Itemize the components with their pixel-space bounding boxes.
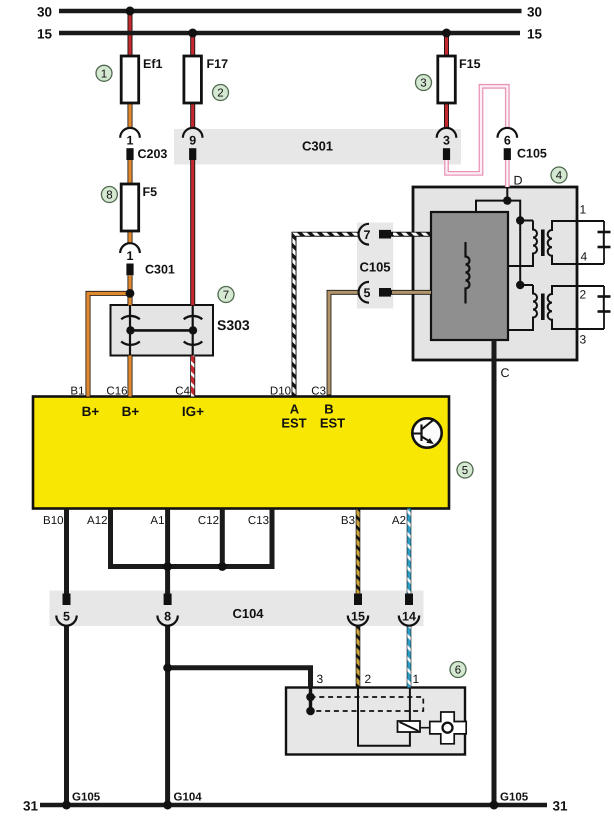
svg-text:A12: A12 xyxy=(87,515,107,527)
svg-text:5: 5 xyxy=(63,610,70,624)
svg-text:30: 30 xyxy=(527,5,542,20)
junction node C12 on joining bar xyxy=(218,562,227,571)
fuse F5 xyxy=(121,184,139,231)
svg-text:9: 9 xyxy=(189,134,196,148)
wire thick black ECU pin A12 down xyxy=(108,509,113,567)
ignition coil 2-3 core xyxy=(541,294,545,321)
svg-text:C301: C301 xyxy=(145,262,175,276)
injector block dashed linkage xyxy=(311,697,424,711)
svg-text:8: 8 xyxy=(106,190,112,202)
svg-text:B1: B1 xyxy=(70,386,84,398)
junction node on bus30 xyxy=(126,7,135,16)
svg-text:3: 3 xyxy=(420,78,426,90)
svg-text:7: 7 xyxy=(223,290,229,302)
svg-text:1: 1 xyxy=(127,249,134,263)
svg-text:C4: C4 xyxy=(175,386,190,398)
connector strip C105 (background) xyxy=(357,223,393,309)
wire thick black C104 pin8 to ground G104 xyxy=(165,626,170,805)
wire thin black inside S303 right xyxy=(192,305,194,356)
svg-text:G104: G104 xyxy=(174,792,203,804)
connector C105 pin6 (arc, number, pin square) xyxy=(498,128,518,160)
svg-text:A2: A2 xyxy=(392,515,406,527)
svg-text:14: 14 xyxy=(402,610,416,624)
svg-text:F15: F15 xyxy=(459,57,481,71)
svg-text:2: 2 xyxy=(217,88,223,100)
svg-text:5: 5 xyxy=(462,465,468,477)
svg-text:1: 1 xyxy=(580,203,587,217)
splice block S303 (background) xyxy=(111,305,214,356)
svg-text:31: 31 xyxy=(553,799,569,814)
svg-text:A1: A1 xyxy=(150,515,164,527)
ignition coil 1-4 core xyxy=(541,230,545,257)
ignition coil 1-4 primary xyxy=(508,221,537,267)
svg-text:31: 31 xyxy=(23,799,39,814)
circled ref 4 xyxy=(551,167,567,183)
injector block internal node upper xyxy=(306,693,315,702)
injector block pin1 internal wire xyxy=(409,688,411,722)
injector block U6 (background) xyxy=(286,688,465,755)
circled ref 5 xyxy=(457,462,473,478)
svg-text:G105: G105 xyxy=(500,792,529,804)
ignition coil 2-3 primary xyxy=(508,285,537,330)
wire orange fuse F5 to connector C301 pin1 xyxy=(128,231,133,244)
wire orange branch to ECU pin B1 xyxy=(88,293,131,396)
wire thick black ECU pin A1 to C104 pin8 xyxy=(165,509,170,594)
svg-text:3: 3 xyxy=(317,672,324,686)
connector C104 pin5 (pin square, number, arc) xyxy=(56,594,76,626)
wire pink connector C105 pin6 to module pin D xyxy=(505,160,510,187)
svg-text:G105: G105 xyxy=(72,792,101,804)
svg-text:EST: EST xyxy=(281,416,306,431)
svg-text:B+: B+ xyxy=(122,404,140,419)
ECU block U5 (yellow) xyxy=(33,397,449,509)
ground junction node G105 left xyxy=(62,801,71,810)
wire red from bus15 to fuse F15 xyxy=(444,33,449,56)
svg-text:S303: S303 xyxy=(217,317,250,333)
connector C104 pin8 (pin square, number, arc) xyxy=(157,594,177,626)
transistor symbol in ECU xyxy=(412,418,441,447)
fuse F15 xyxy=(438,56,456,103)
wire red fuse F17 to connector C301 pin9 xyxy=(190,103,195,128)
svg-text:B10: B10 xyxy=(43,515,63,527)
injector block internal node lower xyxy=(306,707,315,716)
circled ref 3 xyxy=(416,75,432,91)
svg-text:C105: C105 xyxy=(359,260,390,275)
splice S303 left (dot with arcs) xyxy=(121,316,140,345)
svg-text:1: 1 xyxy=(413,672,420,686)
wire thick black ECU pin B10 to C104 pin5 xyxy=(64,509,69,594)
wire orange connector C203 to fuse F5 xyxy=(128,160,133,184)
circled ref 8 xyxy=(101,187,117,203)
svg-text:C12: C12 xyxy=(198,515,219,527)
svg-text:30: 30 xyxy=(37,5,52,20)
ignition coil 2-3 secondary xyxy=(548,286,604,329)
wire thick black joining bar A12-C13 xyxy=(108,564,275,569)
svg-text:F5: F5 xyxy=(143,185,158,199)
svg-text:C301: C301 xyxy=(302,139,333,154)
svg-text:15: 15 xyxy=(37,27,53,42)
wire thick black module pin C to ground xyxy=(492,340,497,805)
wire red fuse F15 to connector C301 pin3 xyxy=(444,103,449,128)
svg-text:B3: B3 xyxy=(341,515,355,527)
svg-text:IG+: IG+ xyxy=(182,404,204,419)
splice S303 connecting bar xyxy=(131,329,194,332)
svg-text:C3: C3 xyxy=(311,386,326,398)
wire thick black branch to injector block pin3 xyxy=(168,668,311,688)
svg-text:C203: C203 xyxy=(138,147,168,161)
ground junction node G105 right xyxy=(490,801,499,810)
svg-text:C104: C104 xyxy=(232,606,264,621)
wire orange connector C301 to splice junction xyxy=(128,276,133,294)
svg-text:D10: D10 xyxy=(270,386,291,398)
svg-text:6: 6 xyxy=(455,665,461,677)
wire orange fuse Ef1 to connector C203 xyxy=(128,103,133,128)
splice junction node on orange wire xyxy=(126,289,135,298)
wire thick black ECU pin C12 down xyxy=(220,509,225,567)
svg-text:4: 4 xyxy=(556,170,563,182)
svg-text:2: 2 xyxy=(365,672,372,686)
spark plug gap cylinder 1-4 xyxy=(598,221,611,264)
fuse Ef1 xyxy=(121,56,139,103)
svg-text:F17: F17 xyxy=(207,57,229,71)
wire orange S303 to ECU pin C16 xyxy=(128,356,133,397)
wire pink connector C301 pin3 to connector C105 pin6 xyxy=(447,86,508,173)
svg-text:D: D xyxy=(514,174,523,188)
injector block pin3 internal wire xyxy=(309,688,312,712)
svg-text:A: A xyxy=(290,402,300,417)
connector C105 pin7 (arc, number, pin square) xyxy=(359,224,391,245)
svg-text:1: 1 xyxy=(127,134,134,148)
connector C301 pin9 (arc, number, pin square) xyxy=(183,128,203,160)
wire tan connector C105 pin5 to module xyxy=(391,290,431,295)
svg-text:8: 8 xyxy=(164,610,171,624)
svg-text:6: 6 xyxy=(504,134,511,148)
svg-text:4: 4 xyxy=(581,250,588,264)
ground junction node G104 xyxy=(163,801,172,810)
ignition module box U4 (background) xyxy=(413,187,577,360)
wire yellow-black striped C104 pin15 to injector block pin2 xyxy=(356,626,361,688)
wire yellow-black striped ECU pin B3 to C104 pin15 xyxy=(356,509,361,594)
module internal node coil1 feed xyxy=(516,216,524,224)
connector C203 pin1 (arc, number, pin square) xyxy=(120,128,140,160)
junction node wire8 to injector branch xyxy=(163,663,172,672)
splice S303 right (dot with arcs) xyxy=(184,316,203,345)
wire red from bus30 to fuse Ef1 xyxy=(128,11,133,56)
spark plug gap cylinder 2-3 xyxy=(598,286,611,329)
connector C301 pin3 (arc, number, pin square) xyxy=(437,128,457,160)
svg-text:C16: C16 xyxy=(106,386,127,398)
svg-text:7: 7 xyxy=(364,228,371,242)
wire blue-white striped ECU pin A2 to C104 pin14 xyxy=(407,509,412,594)
svg-text:15: 15 xyxy=(527,27,543,42)
circled ref 7 xyxy=(218,287,234,303)
bus line 30 xyxy=(59,9,522,13)
svg-text:C13: C13 xyxy=(248,515,269,527)
module internal node at D xyxy=(503,196,511,204)
injector coil (slashed box) xyxy=(398,721,421,732)
connector strip C301 (background) xyxy=(174,129,461,165)
svg-text:15: 15 xyxy=(351,610,365,624)
svg-text:B+: B+ xyxy=(82,404,100,419)
circled ref 1 xyxy=(96,65,112,81)
circled ref 6 xyxy=(450,662,466,678)
injector nozzle link xyxy=(420,727,431,729)
svg-text:C105: C105 xyxy=(517,147,547,161)
connector C104 pin15 (pin square, number, arc) xyxy=(348,594,368,626)
svg-text:B: B xyxy=(324,402,333,417)
module internal wiring from pin D xyxy=(476,187,533,285)
svg-text:EST: EST xyxy=(320,416,345,431)
inductor coil inside module inner block xyxy=(466,242,470,304)
module internal node coil2 feed xyxy=(516,281,524,289)
junction node on bus15 at F15 xyxy=(442,29,451,38)
junction node A1 on joining bar xyxy=(163,562,172,571)
svg-text:2: 2 xyxy=(580,288,587,302)
wire tan ECU pin C3 to connector C105 pin5 xyxy=(329,292,359,396)
injector nozzle symbol xyxy=(430,712,466,744)
bus line 15 xyxy=(59,31,520,35)
wire red from bus15 to fuse F17 xyxy=(190,33,195,56)
wire black-white striped connector C105 pin7 to module xyxy=(391,232,431,237)
wire red connector C301 pin9 to splice S303 xyxy=(190,160,195,306)
svg-text:5: 5 xyxy=(364,286,371,300)
connector C104 pin14 (pin square, number, arc) xyxy=(399,594,419,626)
connector C105 pin5 (arc, number, pin square) xyxy=(359,282,391,303)
ground bus 31 xyxy=(40,803,547,808)
wire thin black inside S303 left xyxy=(129,305,131,356)
svg-text:C: C xyxy=(501,366,510,380)
wire orange through S303 to ECU pin C16 xyxy=(128,293,133,306)
circled ref 2 xyxy=(213,85,229,101)
wire thick black C104 pin5 to ground G105 xyxy=(64,626,69,805)
svg-text:3: 3 xyxy=(443,134,450,148)
svg-text:3: 3 xyxy=(580,333,587,347)
connector strip C104 (background) xyxy=(50,591,424,627)
junction node on bus15 at F17 xyxy=(188,29,197,38)
wire blue-white striped C104 pin14 to injector block pin1 xyxy=(407,626,412,688)
wire red-white striped S303 to ECU pin C4 xyxy=(190,356,195,397)
wire thick black ECU pin C13 down xyxy=(270,509,275,567)
svg-text:Ef1: Ef1 xyxy=(143,57,163,71)
fuse F17 xyxy=(184,56,202,103)
ignition module inner block (dark) xyxy=(431,212,508,340)
connector C301 pin1 below fuse F5 (arc, number, pin square) xyxy=(120,243,140,275)
injector block pin2 internal wire xyxy=(358,688,410,746)
svg-text:1: 1 xyxy=(101,69,107,81)
wire black-white striped ECU pin D10 to connector C105 pin7 xyxy=(294,234,359,396)
ignition coil 1-4 secondary xyxy=(548,221,604,264)
